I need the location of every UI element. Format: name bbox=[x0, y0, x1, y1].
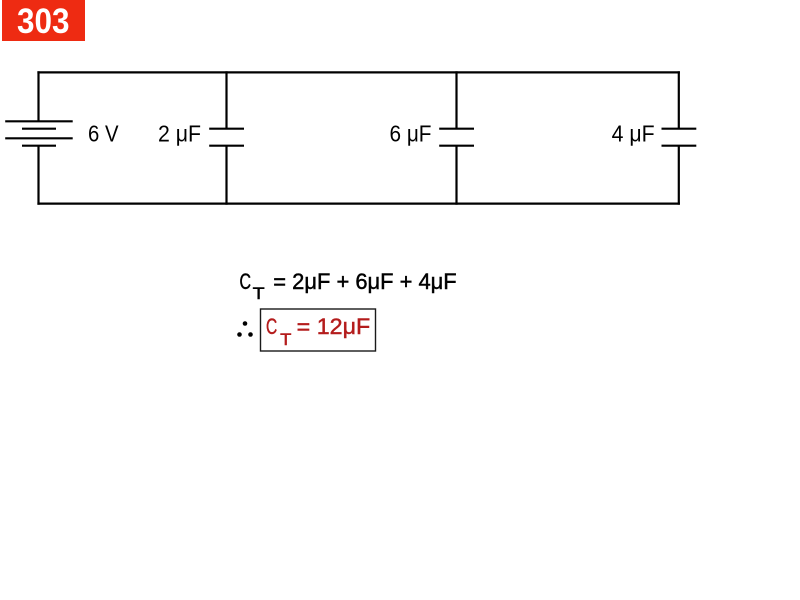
wire capacitor C2 bottom lead bbox=[455, 146, 457, 205]
svg-text:T: T bbox=[253, 284, 265, 303]
slide number badge 303 bbox=[2, 0, 85, 41]
wire right rail upper segment bbox=[678, 71, 680, 128]
svg-text:T: T bbox=[280, 331, 291, 349]
capacitor C3 4uF bbox=[662, 129, 697, 146]
svg-text:= 2μF + 6μF + 4μF: = 2μF + 6μF + 4μF bbox=[273, 269, 456, 294]
wire left rail upper segment bbox=[37, 71, 39, 121]
wire capacitor C2 top lead bbox=[455, 71, 457, 128]
wire left rail lower segment bbox=[37, 146, 39, 205]
wire top rail bbox=[37, 71, 680, 73]
svg-text:303: 303 bbox=[17, 1, 70, 41]
svg-text:C: C bbox=[240, 269, 252, 294]
answer text CT = 12uF bbox=[266, 314, 370, 349]
battery V1 6V bbox=[5, 121, 73, 145]
wire right rail lower segment bbox=[678, 146, 680, 205]
answer box bbox=[261, 309, 376, 351]
capacitor C2 6uF bbox=[439, 129, 474, 146]
wire capacitor C1 top lead bbox=[225, 71, 227, 128]
svg-text:6 μF: 6 μF bbox=[390, 121, 432, 147]
svg-text:4 μF: 4 μF bbox=[612, 121, 655, 147]
svg-text:2 μF: 2 μF bbox=[158, 121, 201, 147]
therefore symbol bbox=[237, 321, 253, 337]
wire capacitor C1 bottom lead bbox=[225, 146, 227, 205]
capacitor C1 2uF bbox=[209, 129, 244, 146]
svg-text:C: C bbox=[266, 314, 277, 339]
equation CT = 2uF + 6uF + 4uF bbox=[240, 269, 457, 303]
svg-text:= 12μF: = 12μF bbox=[297, 314, 371, 339]
wire bottom rail bbox=[37, 203, 680, 205]
svg-text:6 V: 6 V bbox=[88, 121, 119, 147]
